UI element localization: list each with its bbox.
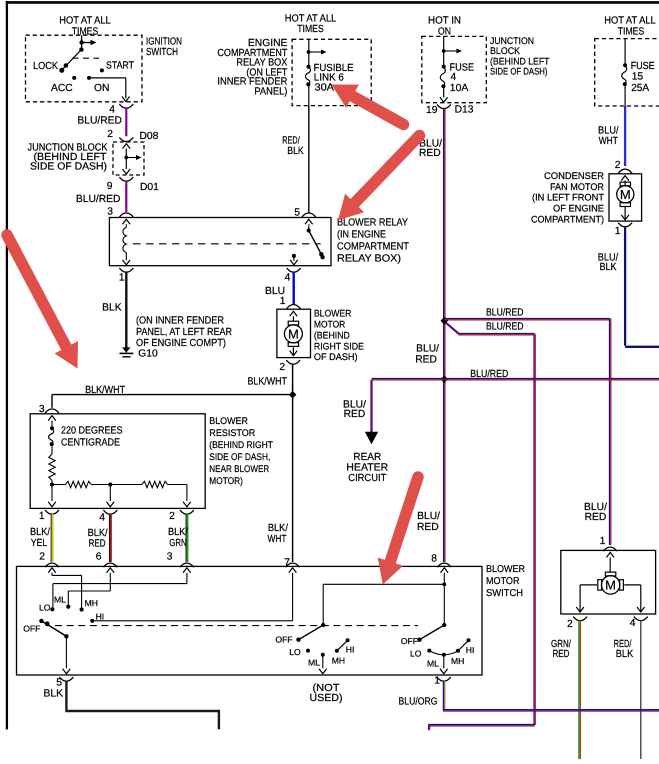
wire BLK switch pin5 to lower left bbox=[44, 681, 219, 729]
svg-text:ML: ML bbox=[308, 658, 320, 668]
svg-text:ON: ON bbox=[94, 83, 109, 94]
svg-text:BLK: BLK bbox=[44, 688, 64, 699]
fuse 15 dashed box bbox=[595, 39, 659, 106]
svg-text:COMPARTMENT: COMPARTMENT bbox=[337, 241, 410, 252]
wire BLU/ORG switch pin1 to right edge bbox=[399, 681, 659, 711]
svg-text:RED: RED bbox=[553, 649, 570, 660]
label IGNITION SWITCH bbox=[146, 36, 182, 58]
connector pin 1 of blower motor bbox=[280, 296, 301, 308]
label HOT IN ON bbox=[428, 16, 461, 38]
svg-text:BLU/RED: BLU/RED bbox=[76, 194, 121, 205]
svg-text:ON: ON bbox=[438, 26, 451, 37]
svg-text:NEAR BLOWER: NEAR BLOWER bbox=[209, 464, 269, 475]
svg-text:GRN/: GRN/ bbox=[551, 639, 571, 650]
rear heater circuit arrow bbox=[346, 432, 388, 484]
svg-text:5: 5 bbox=[294, 207, 300, 218]
svg-text:D08: D08 bbox=[140, 131, 159, 142]
svg-text:7: 7 bbox=[284, 557, 290, 568]
svg-text:ML: ML bbox=[54, 595, 66, 605]
svg-text:M: M bbox=[288, 326, 299, 341]
wire RED/BLK rear motor pin4 down bbox=[614, 621, 641, 760]
wire BLK/WHT junction to resistor pin 3 bbox=[52, 385, 293, 408]
svg-text:WHT: WHT bbox=[268, 534, 288, 545]
connector pin 2 of condenser fan motor bbox=[615, 160, 632, 173]
svg-text:M: M bbox=[605, 578, 616, 593]
svg-text:4: 4 bbox=[451, 72, 457, 83]
svg-text:RED: RED bbox=[89, 539, 106, 550]
svg-text:(ON INNER FENDER: (ON INNER FENDER bbox=[136, 316, 224, 327]
svg-text:START: START bbox=[106, 61, 135, 72]
svg-text:2: 2 bbox=[567, 619, 573, 630]
wire BLU/RED branch via diagonal to lower-right rail bbox=[446, 322, 536, 725]
svg-text:OFF: OFF bbox=[275, 635, 292, 645]
svg-text:BLU/: BLU/ bbox=[417, 511, 440, 522]
ignition switch S1 bbox=[26, 35, 143, 102]
connector pin 8 of blower motor switch bbox=[431, 553, 451, 567]
svg-text:30A: 30A bbox=[315, 83, 335, 94]
svg-text:HI: HI bbox=[346, 645, 355, 655]
label BLOWER RELAY (IN ENGINE COMPARTMENT RELAY BOX) bbox=[337, 217, 410, 264]
connector pin 4 of blower relay bbox=[285, 268, 301, 283]
svg-text:USED): USED) bbox=[310, 693, 343, 704]
switch wiring pin7 to HI contact bbox=[92, 568, 296, 621]
label (NOT USED) bbox=[310, 683, 343, 704]
junction node BLK/WHT bbox=[289, 391, 297, 399]
svg-text:HOT AT ALL: HOT AT ALL bbox=[604, 16, 656, 27]
svg-text:BLK: BLK bbox=[287, 146, 304, 157]
svg-text:GRN: GRN bbox=[169, 538, 187, 549]
svg-text:IGNITION: IGNITION bbox=[146, 36, 182, 47]
svg-text:6: 6 bbox=[96, 552, 102, 563]
wire BLK/RED resistor pin4 to switch pin6 bbox=[88, 514, 111, 562]
svg-text:3: 3 bbox=[107, 207, 113, 218]
red arrow annotation 3 (blower resistor) bbox=[7, 235, 78, 369]
svg-text:RIGHT SIDE: RIGHT SIDE bbox=[314, 341, 364, 352]
svg-text:HOT IN: HOT IN bbox=[428, 16, 461, 27]
wire BLU/BLK condenser fan to right edge bbox=[598, 227, 659, 347]
svg-text:2: 2 bbox=[615, 160, 621, 171]
blower resistor elements bbox=[48, 454, 191, 507]
label BLOWER MOTOR SWITCH bbox=[486, 564, 525, 599]
svg-text:BLU/RED: BLU/RED bbox=[486, 307, 524, 318]
svg-text:BLK/: BLK/ bbox=[30, 527, 50, 538]
ground G10 bbox=[120, 347, 159, 359]
connector pin 4 of ignition switch bbox=[109, 104, 133, 115]
svg-text:BLU/RED: BLU/RED bbox=[470, 369, 508, 380]
svg-text:1: 1 bbox=[615, 226, 621, 237]
svg-text:G10: G10 bbox=[138, 349, 158, 360]
svg-text:SIDE OF DASH): SIDE OF DASH) bbox=[30, 162, 107, 173]
label HOT AT ALL TIMES (fusible link feed) bbox=[285, 14, 337, 36]
engine compartment relay box (dashed) bbox=[292, 39, 371, 105]
label CONDENSER FAN MOTOR (IN LEFT FRONT OF ENGINE COMPARTMENT) bbox=[531, 171, 604, 225]
svg-text:PANEL, AT LEFT REAR: PANEL, AT LEFT REAR bbox=[136, 327, 232, 338]
wire BLK relay pin1 to ground G10 bbox=[102, 272, 126, 348]
svg-text:BLOWER RELAY: BLOWER RELAY bbox=[337, 217, 408, 228]
svg-text:SIDE OF DASH,: SIDE OF DASH, bbox=[209, 452, 270, 463]
svg-text:(BEHIND RIGHT: (BEHIND RIGHT bbox=[209, 440, 273, 451]
svg-text:CENTIGRADE: CENTIGRADE bbox=[61, 437, 120, 448]
svg-text:2: 2 bbox=[279, 362, 285, 373]
label HOT AT ALL TIMES (ignition feed) bbox=[59, 16, 111, 38]
svg-text:WHT: WHT bbox=[599, 136, 619, 147]
svg-text:1: 1 bbox=[119, 273, 125, 284]
connector pin 3 of blower relay bbox=[107, 207, 133, 218]
svg-text:ML: ML bbox=[427, 659, 439, 669]
wire BLU relay pin4 to blower motor pin1 bbox=[265, 272, 294, 305]
svg-text:MOTOR: MOTOR bbox=[314, 320, 345, 331]
svg-text:4: 4 bbox=[630, 618, 636, 629]
svg-text:BLK/WHT: BLK/WHT bbox=[85, 385, 126, 396]
blower relay internal dashed link bbox=[133, 243, 321, 245]
svg-text:BLK/: BLK/ bbox=[168, 527, 188, 538]
svg-text:BLK/: BLK/ bbox=[88, 528, 108, 539]
switch wiring pin6 to ML contact bbox=[68, 568, 114, 606]
wire BLU/RED horizontal to right page edge bbox=[372, 369, 659, 380]
wire BLK/YEL resistor pin1 to switch pin2 bbox=[30, 514, 53, 562]
connector pin 5 of switch (bottom) bbox=[56, 677, 73, 688]
svg-text:SWITCH: SWITCH bbox=[146, 47, 178, 58]
svg-text:1: 1 bbox=[39, 511, 45, 522]
red arrow annotation 1 (fusible link) bbox=[332, 85, 404, 125]
svg-text:HI: HI bbox=[466, 645, 475, 655]
wire BLU/RED D01 to blower relay pin 3 bbox=[76, 181, 126, 212]
svg-text:2: 2 bbox=[107, 129, 113, 140]
connector pin 1 of blower relay bbox=[119, 268, 133, 283]
connector 19 / D13 bbox=[426, 105, 474, 117]
svg-text:OF ENGINE COMPT): OF ENGINE COMPT) bbox=[136, 338, 226, 349]
wire RED/BLK fusible link to blower relay pin 5 bbox=[282, 106, 309, 213]
svg-text:(BEHIND: (BEHIND bbox=[314, 331, 350, 342]
svg-text:2: 2 bbox=[169, 511, 175, 522]
wire GRN/RED rear motor pin2 down bbox=[551, 621, 580, 760]
label 220 DEGREES CENTIGRADE bbox=[61, 425, 123, 448]
switch internal dashed line bbox=[55, 625, 418, 627]
connector pin 2 of switch (top) bbox=[39, 552, 59, 568]
right switch deck (rear output) bbox=[401, 623, 475, 674]
svg-text:RED: RED bbox=[415, 355, 437, 366]
svg-text:BLU/: BLU/ bbox=[416, 344, 439, 355]
svg-text:BLOWER: BLOWER bbox=[486, 564, 525, 575]
svg-text:LO: LO bbox=[410, 649, 422, 659]
wire BLU/RED D13 down to switch pin 8 bbox=[415, 109, 445, 563]
connector pin 1 of condenser fan motor bbox=[615, 223, 632, 237]
connector pin 1 of switch (bottom) bbox=[434, 675, 451, 686]
blower resistor R1 box bbox=[30, 414, 205, 509]
svg-text:BLU/ORG: BLU/ORG bbox=[399, 697, 438, 708]
svg-text:1: 1 bbox=[280, 296, 286, 307]
svg-text:2: 2 bbox=[39, 552, 45, 563]
svg-text:220 DEGREES: 220 DEGREES bbox=[61, 425, 123, 436]
connector pin 1 of rear A/C motor bbox=[600, 536, 618, 551]
svg-text:D01: D01 bbox=[140, 182, 159, 193]
wire BLK/WHT blower motor to junction bbox=[248, 364, 293, 395]
wire BLU/RED junction to rear A/C motor pin 1 bbox=[444, 307, 611, 545]
connector pin 4 of blower resistor bbox=[99, 510, 117, 523]
svg-text:CIRCUIT: CIRCUIT bbox=[348, 473, 387, 484]
svg-text:RED: RED bbox=[419, 148, 441, 159]
svg-text:HI: HI bbox=[96, 612, 105, 622]
label FUSE 4 10A bbox=[450, 63, 475, 94]
svg-text:COMPARTMENT): COMPARTMENT) bbox=[531, 214, 604, 225]
svg-text:RED/: RED/ bbox=[614, 639, 632, 650]
svg-text:(IN ENGINE: (IN ENGINE bbox=[337, 229, 386, 240]
svg-text:FUSE: FUSE bbox=[631, 61, 655, 72]
label (ON INNER FENDER PANEL, AT LEFT REAR OF ENGINE COMPT) bbox=[136, 316, 232, 350]
svg-text:MH: MH bbox=[85, 598, 98, 608]
svg-text:CONDENSER: CONDENSER bbox=[544, 171, 604, 182]
label BLOWER MOTOR (BEHIND RIGHT SIDE OF DASH) bbox=[314, 309, 364, 364]
svg-text:M: M bbox=[620, 187, 631, 202]
switch wiring pin3 to LO contact bbox=[53, 568, 191, 608]
svg-text:MH: MH bbox=[451, 656, 464, 666]
wire BLK/WHT junction down to switch pin 7 bbox=[268, 395, 293, 562]
svg-text:OF DASH): OF DASH) bbox=[314, 352, 358, 363]
svg-text:MH: MH bbox=[332, 655, 345, 665]
svg-text:MOTOR: MOTOR bbox=[486, 576, 520, 587]
connector pin 7 of switch (top) bbox=[284, 557, 299, 568]
blower relay K1 box bbox=[109, 218, 331, 266]
svg-text:HOT AT ALL: HOT AT ALL bbox=[285, 14, 337, 25]
label BLOWER RESISTOR (BEHIND RIGHT SIDE OF DASH, NEAR BLOWER MOTOR) bbox=[209, 416, 273, 487]
connector pin 2 of blower resistor bbox=[169, 510, 194, 522]
svg-text:4: 4 bbox=[99, 513, 105, 524]
wire BLU/RED stub to rear heater circuit bbox=[343, 380, 371, 433]
red arrow annotation 2 (blower relay) bbox=[338, 136, 420, 221]
label ENGINE COMPARTMENT RELAY BOX (ON LEFT INNER FENDER PANEL) bbox=[217, 38, 288, 97]
svg-text:YEL: YEL bbox=[31, 538, 48, 549]
red arrow annotation 4 (blower motor switch) bbox=[378, 477, 418, 585]
connector D08 pin 2 bbox=[107, 129, 158, 142]
connector D01 pin 9 bbox=[107, 177, 159, 193]
svg-text:BLK: BLK bbox=[616, 649, 634, 660]
fuse 4 10A bbox=[440, 36, 462, 102]
svg-text:10A: 10A bbox=[450, 83, 469, 94]
wire BLK/GRN resistor pin2 to switch pin3 bbox=[168, 514, 188, 562]
connector pin 1 of blower resistor bbox=[39, 510, 59, 522]
svg-text:BLOWER: BLOWER bbox=[209, 416, 248, 427]
svg-text:BLK/WHT: BLK/WHT bbox=[248, 376, 288, 387]
label FUSE 15 25A bbox=[631, 61, 655, 94]
connector pin 3 of blower resistor bbox=[39, 404, 59, 415]
svg-text:LOCK: LOCK bbox=[33, 61, 58, 72]
label FUSIBLE LINK 6 30A bbox=[314, 63, 354, 94]
junction node BLU/RED upper bbox=[441, 317, 449, 325]
svg-text:(IN LEFT FRONT: (IN LEFT FRONT bbox=[532, 193, 604, 204]
svg-text:15: 15 bbox=[632, 72, 644, 83]
svg-text:SWITCH: SWITCH bbox=[486, 588, 523, 599]
rear A/C blower motor M3 bbox=[561, 550, 656, 614]
fuse 15 25A bbox=[622, 39, 627, 106]
label HOT AT ALL TIMES (fuse 15 feed) bbox=[604, 16, 656, 38]
middle switch deck (not used) bbox=[275, 623, 354, 674]
svg-text:LO: LO bbox=[289, 647, 301, 657]
wire BLU/RED lower-left hook of right rail bbox=[429, 724, 535, 730]
svg-text:(NOT: (NOT bbox=[313, 683, 341, 694]
svg-text:BLK: BLK bbox=[102, 303, 122, 314]
condenser fan motor M1 bbox=[609, 174, 642, 221]
svg-text:OF ENGINE: OF ENGINE bbox=[553, 203, 604, 214]
connector pin 2 of blower motor bbox=[279, 360, 300, 373]
svg-text:4: 4 bbox=[109, 105, 115, 116]
svg-text:TIMES: TIMES bbox=[618, 26, 645, 37]
svg-text:8: 8 bbox=[431, 553, 437, 564]
svg-text:OFF: OFF bbox=[401, 636, 418, 646]
svg-text:LO: LO bbox=[39, 602, 51, 612]
svg-text:RED: RED bbox=[417, 522, 439, 533]
svg-text:19: 19 bbox=[426, 105, 438, 116]
svg-text:9: 9 bbox=[107, 181, 113, 192]
svg-text:OFF: OFF bbox=[23, 624, 40, 634]
svg-text:3: 3 bbox=[167, 552, 173, 563]
junction block J/B (left, D08-D01) bbox=[113, 142, 144, 175]
svg-text:RELAY BOX): RELAY BOX) bbox=[337, 253, 401, 264]
junction node BLU/RED lower bbox=[441, 375, 449, 383]
connector pin 2 of rear A/C motor bbox=[567, 617, 587, 630]
left switch deck contacts LO ML MH HI OFF bbox=[23, 595, 104, 634]
svg-text:4: 4 bbox=[285, 273, 291, 284]
svg-text:HEATER: HEATER bbox=[346, 462, 388, 473]
svg-text:BLOWER: BLOWER bbox=[314, 309, 352, 320]
svg-text:HOT AT ALL: HOT AT ALL bbox=[59, 16, 111, 27]
left switch deck blade at OFF and output to pin 5 bbox=[39, 619, 70, 674]
svg-text:MOTOR): MOTOR) bbox=[209, 476, 243, 487]
blower relay coil (pin3-pin1) bbox=[123, 219, 131, 265]
svg-text:SIDE OF DASH): SIDE OF DASH) bbox=[490, 66, 548, 77]
blower resistor thermal fuse 220 degrees bbox=[48, 416, 56, 454]
svg-text:BLK/: BLK/ bbox=[268, 523, 288, 534]
junction block (fuse 4) dashed box bbox=[422, 36, 487, 102]
svg-text:PANEL): PANEL) bbox=[254, 87, 287, 98]
switch wiring pin8 to fan contacts bbox=[323, 568, 448, 625]
connector pin 5 of blower relay bbox=[294, 207, 316, 218]
fusible link 6 30A bbox=[305, 39, 326, 105]
wire BLU/WHT fuse 15 to condenser fan motor bbox=[598, 106, 625, 166]
svg-text:BLU/RED: BLU/RED bbox=[77, 116, 122, 127]
svg-text:RESISTOR: RESISTOR bbox=[209, 428, 255, 439]
wire BLU/RED ignition pin4 to D08 bbox=[77, 108, 126, 136]
svg-text:1: 1 bbox=[600, 536, 606, 547]
blower relay contact (pin5-pin4) bbox=[290, 219, 325, 265]
svg-text:25A: 25A bbox=[631, 83, 649, 94]
label JUNCTION BLOCK (BEHIND LEFT SIDE OF DASH) bbox=[28, 143, 108, 173]
svg-text:RED: RED bbox=[585, 512, 607, 523]
connector pin 4 of rear A/C motor bbox=[630, 617, 648, 629]
svg-text:RED: RED bbox=[344, 409, 366, 420]
svg-text:FAN MOTOR: FAN MOTOR bbox=[550, 182, 604, 193]
label JUNCTION BLOCK (BEHIND LEFT SIDE OF DASH) right bbox=[490, 36, 550, 78]
switch wiring pin2 to MH contact bbox=[48, 568, 81, 609]
svg-text:D13: D13 bbox=[455, 105, 474, 116]
svg-text:TIMES: TIMES bbox=[297, 24, 324, 35]
svg-text:BLK: BLK bbox=[600, 262, 617, 273]
svg-text:BLU/RED: BLU/RED bbox=[486, 322, 524, 333]
blower motor M2 bbox=[277, 309, 311, 357]
blower motor switch S2 box bbox=[17, 566, 483, 675]
svg-text:REAR: REAR bbox=[353, 452, 381, 463]
svg-text:ACC: ACC bbox=[51, 83, 73, 94]
connector pin 6 of switch (top) bbox=[96, 552, 118, 568]
connector pin 3 of switch (top) bbox=[167, 552, 194, 568]
